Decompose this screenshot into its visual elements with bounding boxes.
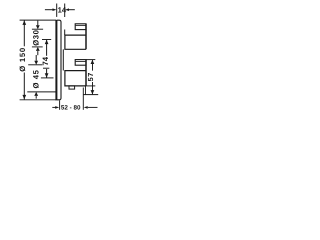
wire top dim right extension — [64, 4, 66, 18]
wire dim 30 top tick — [32, 28, 43, 30]
wire base2 bottom extension / 57 bottom tick — [86, 85, 95, 87]
wire dim 150 bottom extension — [20, 99, 57, 101]
wire dim 45 bottom extension to wall — [27, 91, 56, 93]
svg-text:Ø 150: Ø 150 — [18, 47, 27, 72]
wire dim 14 right arrow — [69, 9, 75, 11]
svg-text:74: 74 — [41, 56, 50, 65]
wire dim 57 stem — [92, 60, 94, 71]
wall — [55, 20, 57, 101]
wire dim 14 left arrow — [45, 9, 53, 11]
svg-text:Ø 45: Ø 45 — [32, 69, 41, 88]
wire dim 74 top tick — [42, 39, 51, 41]
svg-text:57: 57 — [86, 72, 95, 81]
wire dim 30 top external arrow — [37, 21, 39, 26]
handle 2 right edge — [85, 60, 87, 86]
wire dim 52-80 right extension — [82, 88, 84, 110]
svg-text:Ø30: Ø30 — [32, 29, 41, 45]
handle 1 base — [65, 35, 86, 49]
connector line between handles — [62, 49, 64, 70]
wire dim 150 stem — [23, 20, 25, 46]
stub under handle 2 — [69, 86, 75, 89]
svg-text:52 - 80: 52 - 80 — [61, 105, 81, 112]
wire line under 74 label — [43, 67, 49, 69]
wire dim 74 bottom — [46, 69, 48, 78]
handle 1 grip — [75, 24, 86, 30]
wire dim 30 bottom external arrow — [36, 47, 40, 51]
wire dim 52-80 left arrow — [52, 106, 55, 108]
escutcheon plate — [57, 20, 61, 100]
wire dim 45 bottom external arrow — [34, 92, 38, 96]
wire lower right horizontal line — [83, 94, 98, 96]
wire dim 45 top external arrow — [35, 55, 37, 61]
wire grip2 top extension / 57 top tick — [86, 59, 95, 61]
wire dim 52-80 left extension — [59, 100, 61, 109]
wire dim 52-80 right arrow — [88, 106, 98, 108]
handle 2 base — [65, 71, 86, 86]
handle 1 right edge — [85, 24, 87, 50]
wire dim 30 bottom tick — [32, 46, 43, 48]
wire top dim left extension — [56, 4, 58, 17]
svg-text:14: 14 — [58, 5, 67, 14]
wire dim 45 top tick — [28, 64, 42, 66]
handle 2 grip — [75, 60, 86, 66]
wire dim 150 top extension — [20, 19, 57, 21]
